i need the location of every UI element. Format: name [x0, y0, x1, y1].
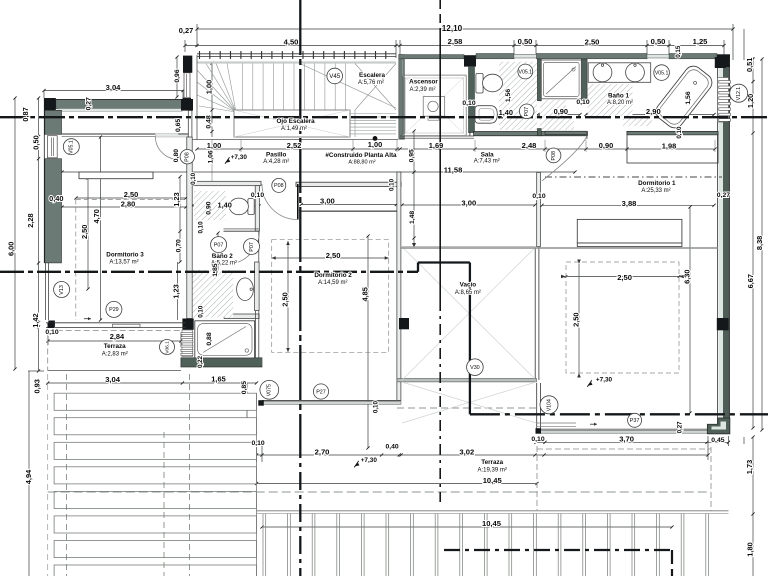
svg-text:2,84: 2,84	[110, 332, 125, 341]
svg-text:2,50: 2,50	[326, 251, 341, 260]
window V05.1 (left wall)	[47, 136, 57, 158]
big dashed overhang line	[48, 491, 711, 493]
level flags	[225, 157, 230, 164]
svg-text:6,67: 6,67	[746, 274, 755, 288]
svg-text:0,45: 0,45	[711, 437, 724, 444]
svg-text:A:14,59 m²: A:14,59 m²	[318, 280, 347, 286]
svg-text:0,10: 0,10	[373, 401, 380, 414]
svg-text:0,95: 0,95	[408, 149, 415, 162]
svg-text:3,04: 3,04	[105, 375, 121, 384]
svg-text:Terraza: Terraza	[104, 343, 126, 350]
svg-text:V075: V075	[267, 384, 273, 396]
svg-text:3,00: 3,00	[320, 197, 335, 206]
svg-text:0,10: 0,10	[532, 193, 545, 200]
Sala / Dormitorio 1 partition stub	[537, 172, 541, 246]
door P08 Dormitorio 2	[262, 184, 298, 220]
toilet WC	[476, 73, 503, 93]
svg-text:0,10: 0,10	[389, 178, 396, 191]
svg-text:0,93: 0,93	[32, 379, 41, 393]
svg-text:0,22: 0,22	[197, 355, 204, 368]
svg-text:1,73: 1,73	[745, 460, 754, 474]
Sala north wall (below WC)	[470, 132, 588, 136]
elevator cabin	[403, 75, 467, 136]
svg-text:1,00: 1,00	[368, 140, 382, 149]
svg-text:1,65: 1,65	[211, 374, 225, 383]
exterior wall left (Dormitorio 3 west)	[44, 110, 61, 263]
door P08 Sala	[542, 136, 587, 181]
bed dashed Dormitorio 1	[566, 262, 679, 373]
wardrobe dashed Dormitorio 3	[76, 200, 186, 321]
bath south wall (dark band)	[181, 358, 262, 367]
svg-text:P07: P07	[249, 242, 255, 252]
stair winder fan	[197, 64, 236, 113]
stair guard rail (top) with balusters	[197, 51, 396, 59]
svg-text:Ojo Escalera: Ojo Escalera	[277, 118, 316, 125]
deck boards bottom-left (horizontal)	[54, 393, 256, 576]
svg-text:2,70: 2,70	[315, 447, 330, 456]
svg-text:Dormitorio 1: Dormitorio 1	[638, 180, 676, 187]
small arrows	[84, 317, 91, 320]
svg-text:6,30: 6,30	[683, 270, 692, 284]
svg-text:V45: V45	[329, 73, 341, 80]
Bano 2 walls around WC niche	[224, 186, 260, 232]
svg-text:0,70: 0,70	[175, 239, 182, 252]
svg-text:+7,30: +7,30	[596, 377, 613, 384]
svg-text:V06.1: V06.1	[164, 341, 170, 354]
svg-text:6,00: 6,00	[6, 242, 15, 256]
bottom-right corner wall	[707, 418, 730, 434]
svg-text:2,50: 2,50	[124, 190, 138, 199]
elevator shaft walls	[399, 55, 476, 139]
svg-text:1,00: 1,00	[207, 141, 221, 150]
exterior wall top-left (Dormitorio 3 north)	[44, 98, 193, 112]
svg-text:0,51: 0,51	[745, 58, 754, 72]
door leaf P08 dorm2	[297, 184, 299, 220]
svg-text:1,40: 1,40	[218, 201, 232, 210]
elevator hall lines	[402, 60, 404, 75]
svg-text:0,27: 0,27	[676, 421, 683, 434]
svg-text:3,00: 3,00	[461, 199, 476, 208]
svg-text:3,70: 3,70	[619, 434, 634, 443]
svg-text:0,40: 0,40	[385, 443, 398, 450]
svg-text:1,42: 1,42	[31, 313, 40, 327]
svg-text:2,28: 2,28	[26, 213, 35, 227]
svg-text:V12.1: V12.1	[736, 87, 742, 101]
headboard Dormitorio 1	[577, 219, 682, 246]
Dormitorio 3 south wall	[46, 323, 186, 328]
svg-text:0,40: 0,40	[49, 194, 63, 203]
terrace corner post	[537, 383, 541, 431]
bathtub Bano 2	[195, 321, 255, 358]
svg-text:2,90: 2,90	[646, 107, 661, 116]
svg-text:A:25,33 m²: A:25,33 m²	[641, 188, 670, 194]
svg-text:V104: V104	[546, 399, 552, 411]
louver door V12.1 on right wall	[718, 78, 731, 123]
svg-text:P07: P07	[214, 242, 224, 248]
door P07 Bano 2	[226, 231, 259, 264]
Dormitorio 2 north wall	[296, 182, 401, 219]
wall stair/elevator	[399, 55, 405, 140]
svg-text:A:19,39 m²: A:19,39 m²	[478, 467, 507, 473]
svg-text:2,48: 2,48	[522, 141, 537, 150]
svg-text:V05.1: V05.1	[69, 140, 75, 154]
svg-text:Dormitorio 2: Dormitorio 2	[314, 272, 352, 279]
shower enclosure	[537, 59, 587, 136]
svg-text:0,90: 0,90	[554, 107, 568, 116]
top wall over WC / Bano 1	[476, 54, 730, 68]
Dormitorio 2 / Vacio wall	[397, 172, 409, 401]
svg-text:2,52: 2,52	[287, 141, 302, 150]
svg-text:A:5,76 m²: A:5,76 m²	[358, 80, 384, 86]
svg-text:0,10: 0,10	[198, 221, 205, 234]
svg-text:1,23: 1,23	[172, 284, 181, 298]
svg-text:0,65: 0,65	[175, 119, 182, 132]
shelf Dormitorio 3	[79, 172, 153, 179]
svg-text:12,10: 12,10	[442, 24, 463, 33]
svg-text:V30: V30	[470, 365, 480, 371]
svg-text:P08: P08	[185, 152, 191, 162]
svg-text:Sala: Sala	[481, 151, 494, 158]
svg-text:Vacío: Vacío	[460, 282, 477, 289]
svg-text:P08: P08	[274, 183, 284, 189]
exterior wall right	[715, 57, 730, 434]
svg-text:0,88: 0,88	[206, 332, 213, 345]
svg-text:A:13,57 m²: A:13,57 m²	[109, 259, 138, 265]
stair top edge	[197, 61, 396, 63]
svg-text:A:88,80 m²: A:88,80 m²	[348, 159, 375, 165]
closet Dormitorio 1	[627, 131, 718, 163]
deck boards bottom (vertical)	[263, 514, 709, 576]
Dormitorio 3 / Bano 2 partition wall	[182, 137, 193, 330]
svg-text:V05.1: V05.1	[519, 69, 533, 75]
ojo escalera opening	[234, 110, 350, 137]
svg-text:P27: P27	[316, 389, 326, 395]
svg-text:P29: P29	[109, 307, 119, 313]
svg-text:0,27: 0,27	[717, 192, 730, 199]
svg-text:1,48: 1,48	[409, 211, 416, 224]
svg-text:0,80: 0,80	[173, 149, 180, 162]
bed dashed Dormitorio 2	[272, 240, 389, 353]
svg-text:0,50: 0,50	[518, 37, 533, 46]
svg-text:1,56: 1,56	[505, 89, 512, 102]
window V06.1 louver (west of bath)	[181, 330, 193, 357]
svg-text:4,85: 4,85	[360, 287, 369, 301]
svg-text:0,10: 0,10	[190, 172, 197, 185]
svg-text:V05.1: V05.1	[655, 70, 669, 76]
svg-text:0,10: 0,10	[198, 305, 205, 318]
svg-text:1,85: 1,85	[212, 263, 219, 276]
door shadow band Dormitorio 3	[155, 134, 188, 137]
svg-text:A:8,65 m²: A:8,65 m²	[455, 290, 481, 296]
svg-text:3,04: 3,04	[106, 83, 122, 92]
svg-text:Terraza: Terraza	[481, 459, 503, 466]
svg-text:0,50: 0,50	[651, 37, 666, 46]
svg-text:0,10: 0,10	[531, 436, 544, 443]
svg-text:1,00: 1,00	[205, 80, 214, 94]
Vacio east wall	[535, 247, 539, 380]
junction dot	[373, 136, 378, 141]
svg-text:P08: P08	[551, 151, 557, 161]
svg-text:Pasillo: Pasillo	[266, 151, 286, 158]
svg-text:Ascensor: Ascensor	[409, 79, 438, 86]
terraza south slab edges	[257, 511, 729, 514]
toilet Bano 2	[229, 198, 254, 215]
svg-text:4,94: 4,94	[24, 469, 33, 484]
window 0,50 (Bano 1)	[647, 54, 669, 58]
double sink counter	[588, 63, 651, 83]
section line vertical x300	[299, 0, 301, 576]
door P08 Dormitorio 3	[155, 137, 178, 160]
glass door V13 (left wall lower)	[46, 263, 55, 327]
svg-text:2,50: 2,50	[585, 37, 600, 46]
svg-text:A:8,20 m²: A:8,20 m²	[607, 100, 633, 106]
svg-text:0,90: 0,90	[599, 141, 613, 150]
axis vertical x440 dashed	[439, 0, 441, 36]
Dormitorio 2 west terrace door	[255, 231, 262, 365]
svg-text:+7,30: +7,30	[231, 154, 248, 161]
window wall pasillo/stair	[188, 111, 192, 140]
svg-text:1,06: 1,06	[207, 150, 214, 163]
svg-text:1,23: 1,23	[172, 192, 181, 206]
svg-text:1,69: 1,69	[429, 141, 443, 150]
Pasillo south / Bano 2 north wall	[192, 181, 261, 185]
svg-text:1,40: 1,40	[499, 108, 513, 117]
svg-text:Baño 2: Baño 2	[212, 253, 233, 260]
deck dashed guides	[48, 374, 257, 576]
svg-text:V13: V13	[59, 285, 65, 295]
svg-text:2,50: 2,50	[617, 273, 632, 282]
svg-text:8,38: 8,38	[755, 236, 764, 250]
svg-text:0,27: 0,27	[179, 26, 193, 35]
section jog: y272 left, x470 down, y414 right	[0, 263, 768, 415]
svg-text:Dormitorio 3: Dormitorio 3	[106, 252, 144, 259]
svg-text:0,15: 0,15	[675, 45, 682, 58]
Dormitorio 1 south glazing	[536, 428, 710, 434]
stair west wall with window	[183, 56, 193, 107]
svg-text:0,96: 0,96	[174, 69, 181, 82]
code circles	[327, 68, 343, 84]
stair treads upper flight	[243, 64, 346, 111]
svg-text:Escalera: Escalera	[359, 72, 385, 79]
window 0,50 (WC)	[514, 54, 537, 58]
Bano 2 east wall lower	[224, 262, 259, 319]
dashed line under closet	[545, 176, 722, 178]
svg-text:2,80: 2,80	[121, 199, 135, 208]
svg-text:A:1,49 m²: A:1,49 m²	[281, 126, 307, 132]
bathtub (rotated)	[652, 63, 715, 132]
svg-text:0,50: 0,50	[31, 135, 40, 149]
svg-text:0,10: 0,10	[576, 99, 589, 106]
svg-text:0,48: 0,48	[205, 115, 212, 128]
lower flight treads	[350, 114, 396, 134]
svg-text:2,50: 2,50	[572, 313, 581, 327]
svg-text:1,25: 1,25	[693, 37, 709, 46]
svg-text:10,45: 10,45	[483, 476, 503, 485]
svg-text:A:4,28 m²: A:4,28 m²	[263, 159, 289, 165]
svg-text:0,87: 0,87	[21, 107, 30, 121]
vacio cross	[402, 247, 536, 423]
hatched wet areas	[193, 62, 652, 318]
svg-text:1,56: 1,56	[685, 91, 692, 104]
svg-text:0,10: 0,10	[676, 126, 683, 139]
svg-text:3,88: 3,88	[622, 199, 637, 208]
section line horizontal y117	[0, 116, 768, 118]
svg-text:A:2,39 m²: A:2,39 m²	[409, 87, 435, 93]
svg-text:P07: P07	[524, 107, 530, 117]
svg-text:1,98: 1,98	[662, 141, 676, 150]
svg-text:2,58: 2,58	[448, 37, 463, 46]
svg-text:2,50: 2,50	[281, 292, 290, 306]
terraza dashed boundary right	[537, 437, 711, 511]
svg-text:3,02: 3,02	[459, 447, 474, 456]
closet top bar left of Dormitorio 1	[545, 131, 587, 134]
sink Bano 2	[237, 278, 254, 301]
svg-text:4,70: 4,70	[92, 209, 101, 223]
terraza NW dashed boundary	[48, 331, 181, 371]
svg-text:10,45: 10,45	[482, 519, 502, 528]
svg-text:0,27: 0,27	[85, 97, 92, 110]
Vacio bottom wall band	[397, 379, 537, 382]
svg-text:0,10: 0,10	[251, 192, 264, 199]
svg-text:+7,30: +7,30	[361, 457, 378, 464]
svg-text:Baño 1: Baño 1	[608, 93, 629, 100]
svg-text:0,10: 0,10	[251, 440, 264, 447]
stair landing diagonals	[300, 64, 396, 111]
svg-text:1,80: 1,80	[745, 542, 754, 556]
svg-text:2,50: 2,50	[80, 225, 89, 239]
svg-text:0,10: 0,10	[45, 329, 58, 336]
svg-text:A:2,83 m²: A:2,83 m²	[102, 351, 128, 357]
svg-text:4,50: 4,50	[284, 38, 299, 47]
svg-text:11,58: 11,58	[444, 165, 463, 174]
svg-text:#Construido Planta Alta: #Construido Planta Alta	[325, 152, 397, 159]
svg-text:A:7,43 m²: A:7,43 m²	[474, 159, 500, 165]
Dormitorio 2 south glazing	[258, 400, 401, 406]
pasillo closet line (y134)	[62, 133, 156, 135]
bottom heavy dashed line	[444, 550, 672, 576]
svg-text:0,85: 0,85	[241, 381, 248, 394]
stair boundary	[196, 55, 198, 140]
svg-text:P37: P37	[630, 418, 640, 424]
svg-text:0,90: 0,90	[206, 201, 213, 214]
bidet	[475, 106, 497, 124]
svg-text:0,10: 0,10	[462, 100, 475, 107]
